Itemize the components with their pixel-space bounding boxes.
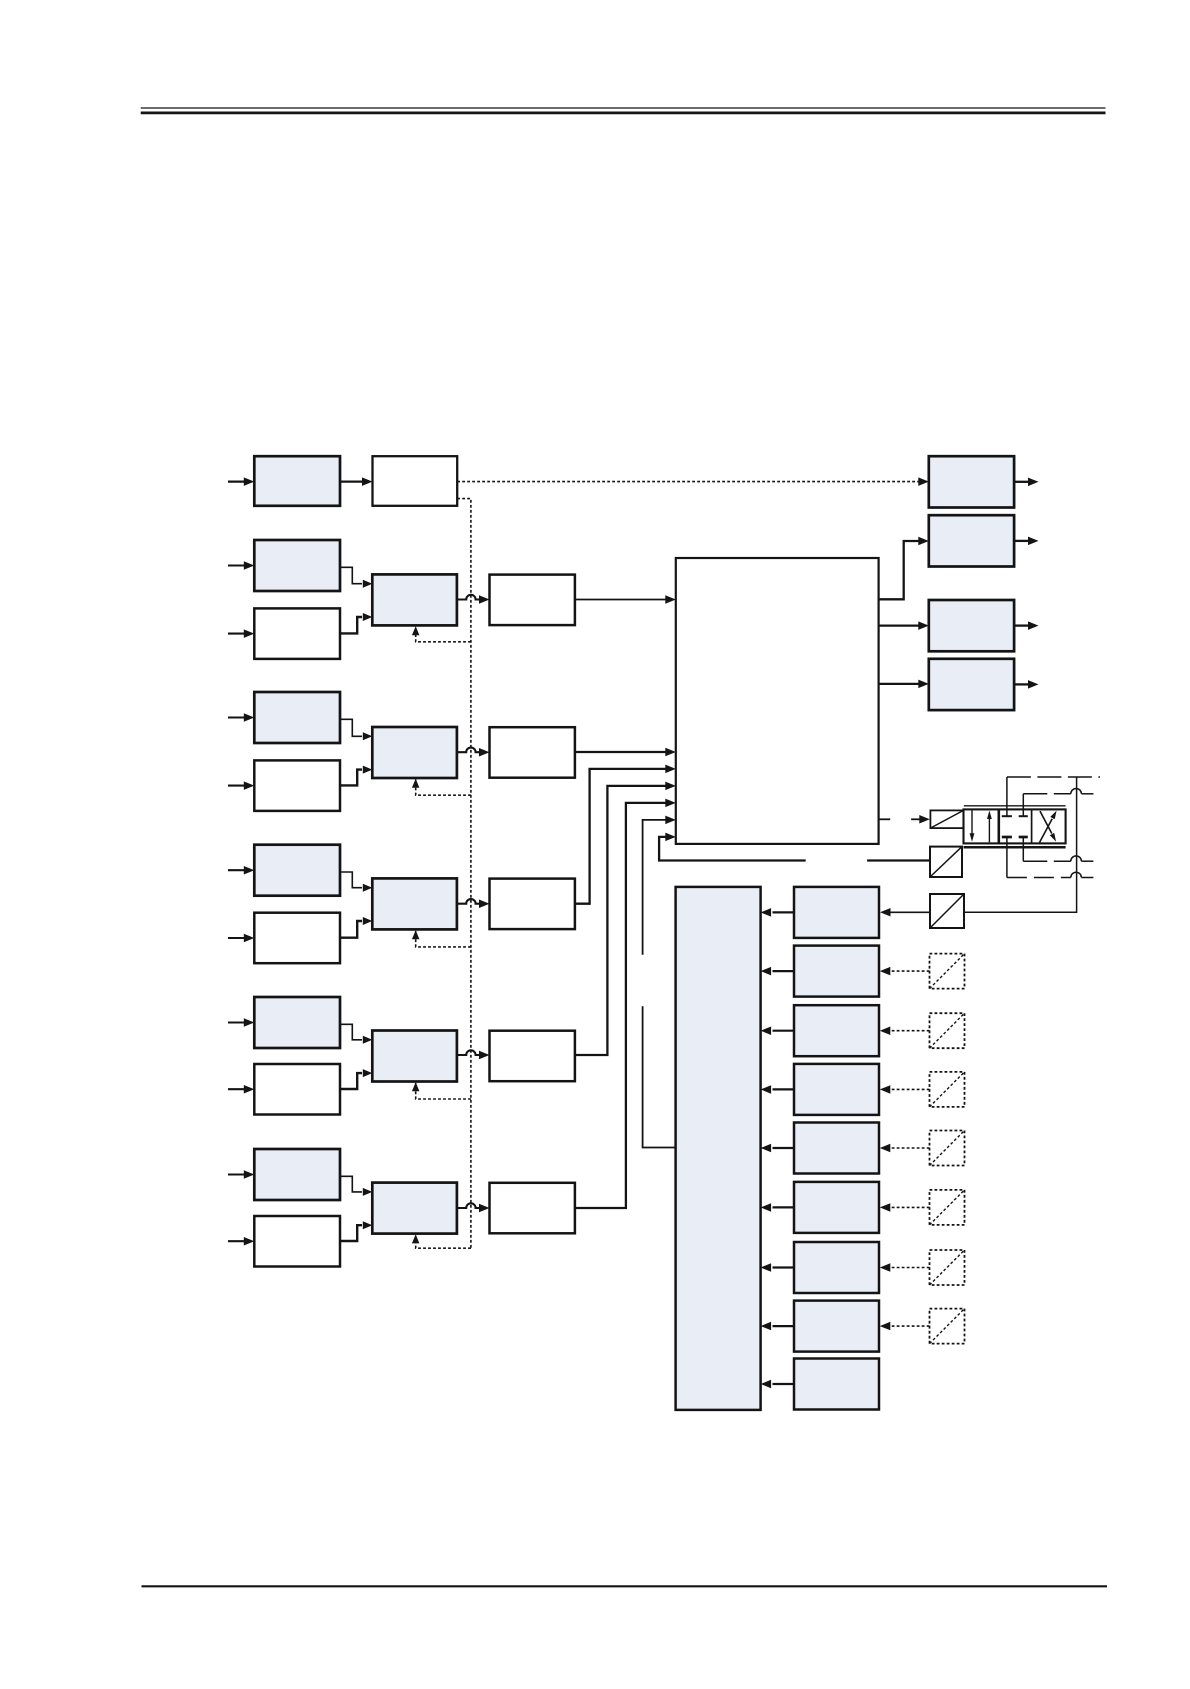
wire row2 upper to combiner	[340, 567, 372, 587]
dashed feedback arrow row3	[412, 779, 471, 795]
input arrow row2 lower	[228, 629, 254, 638]
arrow sensor 5 to monitor	[761, 1144, 794, 1152]
block limiter row3	[490, 727, 575, 778]
block limiter row4	[490, 879, 575, 930]
arrow sensor 1 to monitor	[761, 908, 794, 917]
block input row2 upper	[254, 540, 340, 591]
input arrow row5 lower	[228, 1085, 254, 1094]
pilot stem top-right	[1022, 794, 1024, 816]
dashed arrow transducer 6	[880, 1203, 930, 1212]
block setpoint row1	[254, 456, 340, 506]
arrow sensor 7 to monitor	[761, 1263, 794, 1272]
dashed transducer square 7	[930, 1250, 965, 1285]
block sensor input 1	[794, 887, 879, 938]
wire row3 upper to combiner	[340, 719, 372, 740]
wire row4 lower to combiner	[340, 917, 372, 938]
block input row3 lower	[254, 760, 340, 811]
block monitor	[676, 887, 761, 1410]
dashed arrow transducer 5	[880, 1144, 930, 1152]
block limiter row6	[490, 1183, 575, 1234]
output arrow A	[1014, 478, 1038, 487]
wire row4 upper to combiner	[340, 872, 372, 892]
block combiner row3	[372, 727, 457, 778]
block sensor input 3	[794, 1005, 879, 1056]
block input row4 lower	[254, 913, 340, 964]
block sensor input 9	[794, 1359, 879, 1410]
input arrow row4 upper	[228, 866, 254, 875]
header rule thin	[141, 107, 1106, 109]
wire combiner row5 to limiter with hop	[457, 1050, 490, 1059]
dashed arrow transducer 4	[880, 1085, 930, 1094]
dashed trunk wire down	[457, 499, 471, 1249]
dashed feedback arrow row6	[412, 1234, 471, 1248]
block input row6 lower	[254, 1216, 340, 1267]
arrow sensor 8 to monitor	[761, 1322, 794, 1331]
dashed transducer square 2	[930, 954, 965, 989]
output arrow B	[1014, 537, 1038, 546]
valve divider 2	[1031, 809, 1033, 843]
block sensor input 7	[794, 1242, 879, 1293]
block sensor input 8	[794, 1301, 879, 1352]
wire limiter row5 to controller	[575, 782, 676, 1055]
block input row5 upper	[254, 997, 340, 1048]
input arrow row5 upper	[228, 1018, 254, 1027]
valve divider 1	[997, 809, 1000, 843]
valve top rail	[964, 805, 1066, 807]
block combiner row2	[372, 574, 457, 625]
block input row4 upper	[254, 845, 340, 896]
wire combiner row2 to limiter with hop	[457, 595, 490, 604]
pilot line P3 with hop	[1023, 856, 1100, 861]
wire row5 lower to combiner	[340, 1069, 372, 1089]
wire combiner row6 to limiter with hop	[457, 1203, 490, 1212]
dashed transducer square 6	[930, 1190, 965, 1225]
wire row2 lower to combiner	[340, 613, 372, 633]
dashed feedback arrow row2	[412, 626, 471, 642]
block combiner row6	[372, 1183, 457, 1234]
wire row6 lower to combiner	[340, 1221, 372, 1241]
block combiner row4	[372, 878, 457, 929]
input arrow row1	[228, 477, 254, 486]
arrow row1 to scaling	[340, 477, 373, 486]
dashed feedback arrow row5	[412, 1082, 471, 1099]
wire combiner row3 to limiter with hop	[457, 748, 490, 757]
block output D	[929, 659, 1014, 710]
arrow sensor 3 to monitor	[761, 1027, 794, 1036]
block sensor input 5	[794, 1123, 879, 1174]
dashed transducer square 3	[930, 1013, 965, 1048]
dashed transducer square 5	[930, 1131, 965, 1166]
pilot stem top-left	[1006, 777, 1008, 816]
wire valve feedback to controller	[659, 833, 806, 861]
block output C	[929, 600, 1014, 651]
wire limiter row3 to controller	[575, 748, 676, 756]
valve flow arrow down	[970, 811, 975, 842]
block input row2 lower	[254, 608, 340, 659]
transducer main spool	[930, 894, 964, 928]
block sensor input 6	[794, 1182, 879, 1233]
wire controller to output B	[879, 537, 929, 600]
wire row5 upper to combiner	[340, 1024, 372, 1044]
pilot stem bottom-right	[1022, 837, 1024, 862]
valve blocked port top-right	[1019, 815, 1028, 817]
block controller U1	[676, 558, 879, 844]
pilot stem bottom-left	[1006, 837, 1008, 878]
dashed transducer square 8	[930, 1309, 965, 1344]
valve crossed arrow NE	[1040, 811, 1057, 843]
transducer pilot spool	[930, 847, 962, 877]
valve body	[964, 809, 1066, 843]
block output A	[929, 456, 1014, 507]
wire controller to solenoid	[879, 815, 930, 824]
header rule thick	[141, 112, 1106, 115]
block sensor input 2	[794, 946, 879, 997]
wire controller to output C	[879, 621, 929, 630]
block input row5 lower	[254, 1064, 340, 1115]
valve flow arrow up	[987, 811, 992, 843]
wire combiner row4 to limiter with hop	[457, 899, 490, 908]
wire limiter row4 to controller	[575, 765, 676, 904]
valve crossed arrow SE	[1040, 811, 1056, 842]
arrow transducer to monitor input 1	[880, 908, 930, 917]
block limiter row5	[490, 1031, 575, 1082]
valve blocked port top-left	[1002, 815, 1012, 817]
wire controller to output D	[879, 680, 929, 689]
dashed arrow transducer 2	[880, 967, 930, 976]
input arrow row3 lower	[228, 781, 254, 790]
block input row6 upper	[254, 1149, 340, 1200]
arrow sensor 2 to monitor	[761, 967, 794, 976]
arrow sensor 4 to monitor	[761, 1085, 794, 1094]
wire limiter row2 to controller	[575, 595, 676, 604]
wire row3 lower to combiner	[340, 766, 372, 786]
spool position wire	[964, 777, 1077, 912]
dashed arrow transducer 3	[880, 1027, 930, 1036]
pilot line P2 with hop	[1023, 789, 1100, 794]
pilot line P4 with hop	[1007, 872, 1100, 877]
input arrow row3 upper	[228, 713, 254, 722]
input arrow row4 lower	[228, 934, 254, 943]
block combiner row5	[372, 1031, 457, 1082]
valve blocked port bottom-left	[1002, 836, 1012, 839]
arrow sensor 9 to monitor	[761, 1380, 794, 1388]
block output B	[929, 515, 1014, 566]
pilot line P1	[1007, 776, 1100, 778]
solenoid Y1	[930, 810, 963, 828]
output arrow D	[1014, 680, 1038, 689]
dashed transducer square 4	[930, 1072, 965, 1107]
wire limiter row6 to controller	[575, 799, 676, 1208]
dashed arrow transducer 7	[880, 1263, 930, 1272]
dashed feedback arrow row4	[412, 930, 471, 947]
footer rule	[142, 1585, 1108, 1587]
block scaling row1	[373, 456, 458, 506]
dashed arrow transducer 8	[880, 1322, 930, 1331]
input arrow row6 lower	[228, 1237, 254, 1246]
input arrow row6 upper	[228, 1170, 254, 1179]
dashed wire row1 to output block A	[457, 477, 929, 486]
wire row6 upper to combiner	[340, 1176, 372, 1196]
wire monitor block to controller upper segment	[643, 816, 676, 955]
arrow sensor 6 to monitor	[761, 1203, 794, 1212]
valve blocked port bottom-right	[1019, 836, 1028, 839]
input arrow row2 upper	[228, 561, 254, 570]
block limiter row2	[490, 575, 575, 626]
output arrow C	[1014, 621, 1038, 630]
wire monitor block to controller lower segment	[643, 1006, 676, 1147]
block input row3 upper	[254, 692, 340, 743]
wire valve feedback from transducer	[867, 859, 930, 861]
valve bottom rail	[964, 846, 1066, 849]
block sensor input 4	[794, 1064, 879, 1115]
